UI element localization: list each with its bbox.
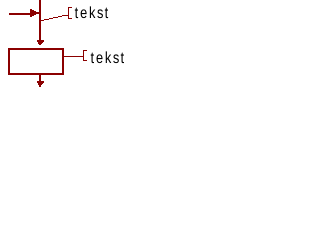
wire horizontal arrow shaft: [9, 13, 31, 15]
arrowhead down bottom: [37, 81, 44, 87]
wire leader to lower label: [64, 56, 83, 57]
bracket upper label: [68, 7, 72, 19]
bracket lower label: [83, 50, 87, 61]
process box: [9, 49, 63, 74]
wire leader to upper label: [40, 15, 68, 21]
label tekst upper: [75, 6, 108, 18]
label tekst lower: [91, 51, 124, 63]
wire bottom arrow shaft: [39, 75, 41, 81]
arrowhead right into junction: [30, 9, 39, 17]
arrowhead down into box: [37, 40, 44, 45]
wire vertical flow line: [39, 0, 41, 40]
